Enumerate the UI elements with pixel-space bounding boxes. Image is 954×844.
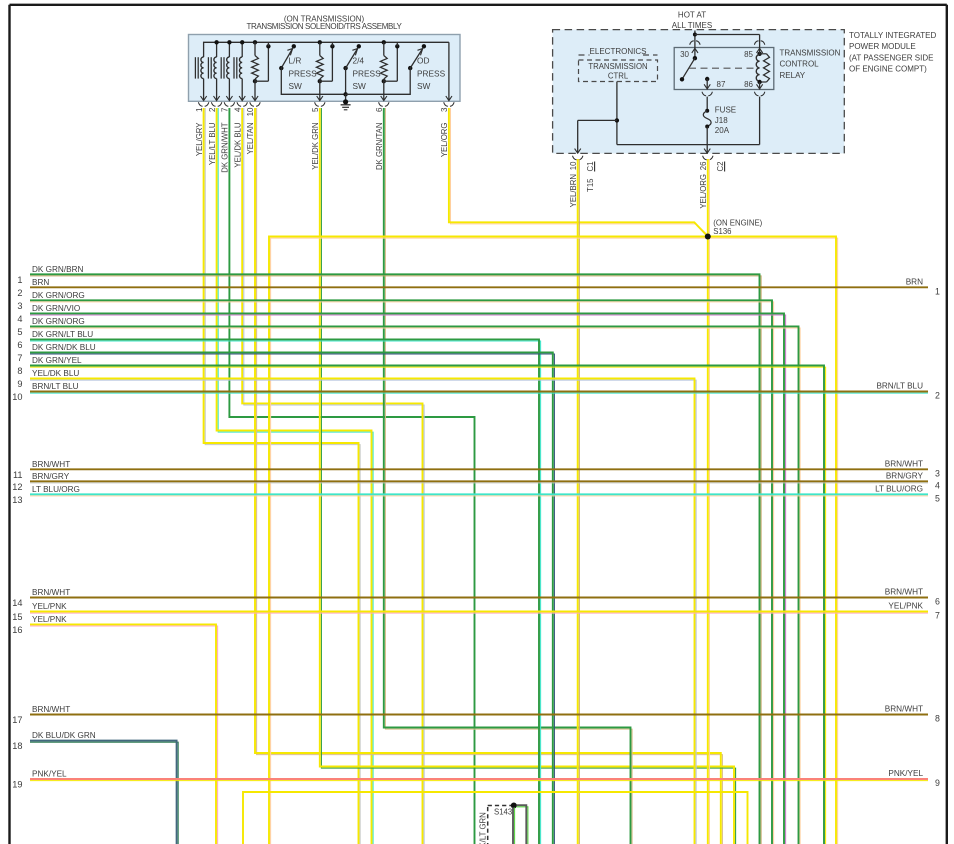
svg-text:BRN/WHT: BRN/WHT <box>32 705 70 714</box>
svg-text:YEL/PNK: YEL/PNK <box>32 602 67 611</box>
relay coil <box>757 52 761 56</box>
wire row 4 DK GRN/VIO <box>30 315 786 844</box>
wire row 6 DK GRN/LT BLU <box>30 341 541 844</box>
solenoid coil L4 (pin 4) <box>241 42 243 57</box>
svg-text:T15: T15 <box>586 178 595 192</box>
svg-text:5: 5 <box>311 107 320 112</box>
solenoid connector <box>198 102 202 106</box>
svg-text:DK GRN/YEL: DK GRN/YEL <box>32 356 82 365</box>
wire row 13 LT BLU/ORG <box>30 495 928 497</box>
svg-text:1: 1 <box>17 275 22 285</box>
svg-text:CTRL: CTRL <box>608 71 629 80</box>
svg-text:7: 7 <box>17 353 22 363</box>
electronics label <box>579 54 590 56</box>
transmission control relay box <box>674 48 774 90</box>
electronics ctrl wire to relay 86 <box>759 97 761 145</box>
wire row 17 BRN/WHT <box>30 714 928 716</box>
svg-text:ALL TIMES: ALL TIMES <box>672 21 712 30</box>
relay actuator dashed line <box>689 67 755 69</box>
svg-text:30: 30 <box>680 50 689 59</box>
svg-text:6: 6 <box>17 340 22 350</box>
pin 3 internal wire <box>448 42 450 100</box>
svg-text:J18: J18 <box>715 116 728 125</box>
svg-text:PRESS: PRESS <box>353 68 382 78</box>
svg-text:YEL/ORG: YEL/ORG <box>440 123 449 158</box>
wire row 8 DK GRN/YEL <box>30 367 826 844</box>
svg-text:3: 3 <box>17 301 22 311</box>
solenoid coil L1 (pin 1) <box>194 57 196 78</box>
svg-text:CONTROL: CONTROL <box>780 60 820 69</box>
svg-text:YEL/GRY: YEL/GRY <box>195 122 204 156</box>
svg-text:4: 4 <box>17 314 22 324</box>
svg-text:HOT AT: HOT AT <box>678 11 706 20</box>
wire row 14 BRN/WHT <box>30 597 928 599</box>
svg-text:S136: S136 <box>713 227 731 236</box>
svg-text:ELECTRONICS: ELECTRONICS <box>590 47 647 56</box>
relay pin 30 <box>692 48 698 53</box>
svg-text:YEL/PNK: YEL/PNK <box>32 615 67 624</box>
svg-text:BRN/WHT: BRN/WHT <box>32 588 70 597</box>
wire YEL/DK BLU pin4 <box>244 108 424 844</box>
S143 dashed stub <box>488 805 511 807</box>
svg-text:C2: C2 <box>716 162 725 172</box>
transmission solenoid/TRS assembly box <box>189 35 461 102</box>
electronics ctrl exit wire <box>578 119 617 121</box>
svg-text:BRN/GRY: BRN/GRY <box>886 471 924 480</box>
svg-text:YEL/LT BLU: YEL/LT BLU <box>208 122 217 165</box>
svg-text:DK GRN/BRN: DK GRN/BRN <box>32 265 83 274</box>
wire row 5 DK GRN/ORG <box>30 328 800 844</box>
splice S136 wire <box>271 238 838 844</box>
svg-text:4: 4 <box>935 480 940 490</box>
svg-text:(AT PASSENGER SIDE: (AT PASSENGER SIDE <box>849 53 933 62</box>
wire BLK/LT GRN down <box>514 808 516 844</box>
OD pressure switch <box>408 66 412 70</box>
svg-text:YEL/TAN: YEL/TAN <box>246 123 255 155</box>
wire YEL/TAN pin10 <box>257 108 723 844</box>
svg-text:15: 15 <box>12 612 22 622</box>
svg-text:BRN/LT BLU: BRN/LT BLU <box>876 382 923 391</box>
svg-text:2: 2 <box>935 391 940 401</box>
svg-text:DK GRN/ORG: DK GRN/ORG <box>32 291 85 300</box>
svg-text:18: 18 <box>12 741 22 751</box>
internal supply bus wire <box>204 42 449 57</box>
wire row 7 DK GRN/DK BLU <box>30 354 554 844</box>
svg-text:POWER MODULE: POWER MODULE <box>849 42 916 51</box>
svg-text:PNK/YEL: PNK/YEL <box>32 770 67 779</box>
wire YEL/GRY pin1 <box>205 108 360 844</box>
svg-text:9: 9 <box>935 778 940 788</box>
svg-text:BRN/WHT: BRN/WHT <box>885 588 923 597</box>
svg-text:5: 5 <box>17 327 22 337</box>
svg-text:86: 86 <box>744 80 753 89</box>
wire YEL/DK GRN pin5 <box>321 108 735 844</box>
wire YEL/ORG from TIPM <box>708 159 710 844</box>
svg-text:16: 16 <box>12 625 22 635</box>
svg-text:20A: 20A <box>715 126 730 135</box>
svg-text:DK GRN/ORG: DK GRN/ORG <box>32 317 85 326</box>
svg-text:11: 11 <box>13 470 23 480</box>
2/4 pressure switch <box>343 66 347 70</box>
svg-text:TOTALLY INTEGRATED: TOTALLY INTEGRATED <box>849 31 937 40</box>
relay bottom connectors <box>702 92 706 96</box>
svg-text:19: 19 <box>12 780 22 790</box>
svg-text:9: 9 <box>17 379 22 389</box>
transmission ctrl dashed box <box>579 60 658 82</box>
svg-text:BRN/WHT: BRN/WHT <box>32 460 70 469</box>
svg-text:BRN: BRN <box>32 278 49 287</box>
svg-text:3: 3 <box>440 107 449 112</box>
internal resistor at x=319.8 <box>318 40 322 44</box>
solenoid coil L2 (pin 2) <box>216 42 218 57</box>
svg-text:L/R: L/R <box>289 56 302 66</box>
TIPM dashed box <box>553 30 845 154</box>
wire yellow link y792 <box>243 792 748 844</box>
svg-text:6: 6 <box>375 107 384 112</box>
svg-text:8: 8 <box>17 366 22 376</box>
svg-text:TRANSMISSION SOLENOID/TRS ASSE: TRANSMISSION SOLENOID/TRS ASSEMBLY <box>246 22 402 31</box>
svg-text:YEL/PNK: YEL/PNK <box>888 602 923 611</box>
wire row 1 DK GRN/BRN <box>30 276 761 844</box>
svg-text:S143: S143 <box>494 808 512 817</box>
svg-text:BLK/LT GRN: BLK/LT GRN <box>478 812 487 844</box>
solenoid coil L3 (pin 7) <box>228 42 230 57</box>
splice S136 <box>705 234 711 240</box>
svg-text:3: 3 <box>935 468 940 478</box>
svg-text:RELAY: RELAY <box>780 71 806 80</box>
wire DK GRN/TAN pin6 <box>385 108 632 844</box>
wire row 2 BRN <box>30 286 928 288</box>
svg-text:SW: SW <box>289 81 303 91</box>
wire row 12 BRN/GRY <box>30 482 928 484</box>
svg-text:17: 17 <box>12 715 22 725</box>
svg-text:BRN/WHT: BRN/WHT <box>885 459 923 468</box>
svg-text:BRN/GRY: BRN/GRY <box>32 472 70 481</box>
svg-text:2/4: 2/4 <box>353 56 365 66</box>
wire row 16 YEL/PNK <box>30 626 218 844</box>
svg-text:DK BLU/DK GRN: DK BLU/DK GRN <box>32 731 96 740</box>
svg-text:10: 10 <box>246 107 255 116</box>
svg-text:2: 2 <box>17 288 22 298</box>
wire row 15 YEL/PNK <box>30 612 928 614</box>
svg-text:OD: OD <box>417 56 429 66</box>
svg-text:26: 26 <box>699 162 708 171</box>
svg-text:SW: SW <box>417 81 431 91</box>
svg-text:LT BLU/ORG: LT BLU/ORG <box>32 485 80 494</box>
svg-text:LT BLU/ORG: LT BLU/ORG <box>875 484 923 493</box>
wire row 18 DK BLU/DK GRN <box>30 742 178 844</box>
svg-text:BRN/WHT: BRN/WHT <box>885 705 923 714</box>
wire DK GRN/WHT pin7 <box>229 108 474 844</box>
wire row 19 PNK/YEL <box>30 780 928 782</box>
svg-text:DK GRN/DK BLU: DK GRN/DK BLU <box>32 343 96 352</box>
svg-text:PRESS: PRESS <box>417 68 446 78</box>
svg-text:DK GRN/WHT: DK GRN/WHT <box>221 122 230 172</box>
svg-text:FUSE: FUSE <box>715 106 736 115</box>
svg-text:SW: SW <box>353 81 367 91</box>
relay top connectors <box>690 41 694 45</box>
svg-text:87: 87 <box>717 80 726 89</box>
svg-text:DK GRN/TAN: DK GRN/TAN <box>375 123 384 171</box>
svg-text:OF ENGINE COMPT): OF ENGINE COMPT) <box>849 65 927 74</box>
ground <box>345 94 347 105</box>
TIPM bottom connectors <box>573 156 577 160</box>
svg-text:DK GRN/VIO: DK GRN/VIO <box>32 304 80 313</box>
page frame border <box>10 4 947 6</box>
svg-text:C1: C1 <box>586 162 595 172</box>
internal resistor at x=255.0 <box>253 40 257 44</box>
wire YEL/LT BLU pin2 <box>218 108 373 844</box>
svg-text:PRESS: PRESS <box>289 68 318 78</box>
L/R pressure switch <box>279 66 283 70</box>
svg-text:6: 6 <box>935 597 940 607</box>
internal resistor at x=383.8 <box>382 40 386 44</box>
svg-text:TRANSMISSION: TRANSMISSION <box>780 48 841 57</box>
svg-text:YEL/DK BLU: YEL/DK BLU <box>32 369 79 378</box>
fuse J18 20A <box>706 97 708 111</box>
wire row 3 DK GRN/ORG <box>30 302 774 844</box>
svg-text:1: 1 <box>195 107 204 112</box>
svg-text:YEL/ORG: YEL/ORG <box>699 174 708 209</box>
wire YEL/ORG pin3 feed <box>451 108 710 237</box>
svg-text:12: 12 <box>12 482 22 492</box>
svg-text:BRN/LT BLU: BRN/LT BLU <box>32 382 79 391</box>
wire row 10 BRN/LT BLU <box>30 392 928 394</box>
svg-text:7: 7 <box>221 107 230 112</box>
svg-text:1: 1 <box>935 286 940 296</box>
svg-text:PNK/YEL: PNK/YEL <box>888 769 923 778</box>
svg-text:YEL/DK BLU: YEL/DK BLU <box>233 122 242 167</box>
relay pin 86 exit <box>759 82 761 90</box>
wire row 11 BRN/WHT <box>30 468 928 470</box>
svg-text:DK GRN/LT BLU: DK GRN/LT BLU <box>32 330 93 339</box>
relay feed wire <box>694 31 696 48</box>
svg-text:8: 8 <box>935 714 940 724</box>
relay pin 87 <box>705 77 709 81</box>
svg-text:BRN: BRN <box>906 277 923 286</box>
svg-text:2: 2 <box>208 107 217 112</box>
svg-text:10: 10 <box>12 392 22 402</box>
wire BLK/LT GRN right <box>517 807 528 844</box>
wire row 9 YEL/DK BLU <box>30 380 696 844</box>
svg-text:5: 5 <box>935 493 940 503</box>
svg-text:YEL/DK GRN: YEL/DK GRN <box>311 123 320 170</box>
wire YEL/BRN from TIPM <box>578 159 580 844</box>
svg-text:YEL/BRN: YEL/BRN <box>569 174 578 207</box>
svg-text:7: 7 <box>935 611 940 621</box>
svg-text:13: 13 <box>12 495 22 505</box>
svg-text:85: 85 <box>744 50 753 59</box>
relay switch blade <box>682 58 695 79</box>
svg-text:4: 4 <box>233 107 242 112</box>
svg-text:TRANSMISSION: TRANSMISSION <box>588 62 647 71</box>
splice S143 <box>511 803 517 809</box>
svg-text:14: 14 <box>12 598 22 608</box>
